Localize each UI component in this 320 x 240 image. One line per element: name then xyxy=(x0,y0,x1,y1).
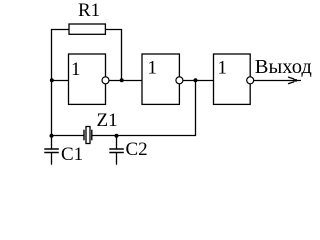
svg-text:Выход: Выход xyxy=(255,56,312,78)
wire xyxy=(109,80,142,82)
svg-text:1: 1 xyxy=(71,59,81,80)
svg-text:R1: R1 xyxy=(78,0,100,21)
node D (C1 / crystal junction) xyxy=(50,134,54,138)
node E (C2 / crystal junction) xyxy=(115,134,119,138)
inverter U1 xyxy=(69,54,110,104)
capacitor C1 xyxy=(44,136,83,166)
wire xyxy=(51,29,69,31)
wire xyxy=(92,135,197,137)
wire xyxy=(51,135,84,137)
svg-text:1: 1 xyxy=(148,58,158,79)
node C (gate 2 output junction) xyxy=(194,78,198,82)
output arrow xyxy=(288,77,297,84)
wire xyxy=(183,80,214,82)
inverter U3 xyxy=(214,54,254,104)
inverter U2 xyxy=(142,54,183,104)
crystal Z1 xyxy=(84,110,118,144)
wire xyxy=(195,81,197,137)
node A (gate 1 input junction) xyxy=(50,78,54,82)
svg-text:Z1: Z1 xyxy=(97,110,118,131)
svg-text:C1: C1 xyxy=(61,144,83,165)
wire xyxy=(254,80,301,82)
wire xyxy=(121,29,123,81)
capacitor C2 xyxy=(109,136,147,165)
svg-text:1: 1 xyxy=(218,58,228,79)
net label Выход (output) xyxy=(255,56,312,78)
svg-text:C2: C2 xyxy=(126,139,148,160)
wire xyxy=(51,29,53,136)
node B (gate 1 output junction) xyxy=(120,78,124,82)
resistor R1 xyxy=(69,0,105,34)
wire xyxy=(52,80,69,82)
wire xyxy=(105,29,122,31)
